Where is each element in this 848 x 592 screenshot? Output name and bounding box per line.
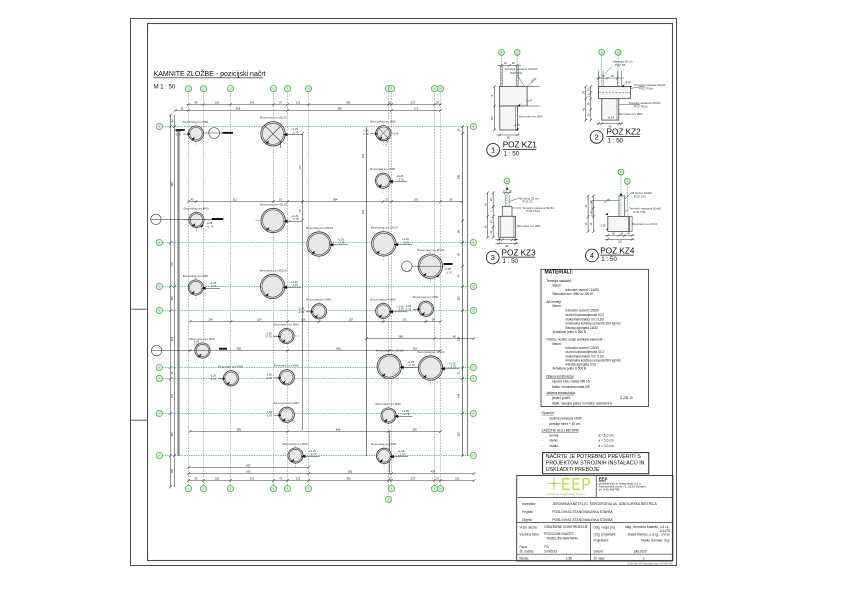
pile circle S13 betonska cev [279,407,294,422]
svg-text:171: 171 [402,317,407,321]
svg-text:POZ TN1b: POZ TN1b [634,104,648,108]
svg-text:Odg. vodja proj.:: Odg. vodja proj.: [594,526,618,530]
short grid segment at pile row S3 [375,180,394,182]
svg-text:trdnostni razred C25/30: trdnostni razred C25/30 [566,309,600,313]
materials list box MATERIALI [541,269,649,406]
pile circle S3 betonska cev [382,169,384,193]
svg-text:192: 192 [414,197,419,201]
svg-text:POZ KZ1: POZ KZ1 [503,141,538,150]
svg-text:POZ KZ4: POZ KZ4 [600,246,635,255]
pile circle S16 betonska cev [383,444,385,468]
svg-text:G: G [472,412,474,416]
grid line hG [163,413,471,415]
svg-text:-1.75: -1.75 [446,271,453,275]
svg-text:V:\S-005-19 Pozicijski nacrt (: V:\S-005-19 Pozicijski nacrt (S-005-19) [628,562,673,566]
pile circle S8 betonska cev [425,297,427,321]
grid line hF [163,378,471,380]
datum mark D3 [402,261,412,271]
logo divider [595,476,597,498]
wall cut bar top-left [176,129,185,131]
svg-text:S-005/19: S-005/19 [544,550,557,554]
svg-text:M 1 : 50: M 1 : 50 [154,85,176,91]
pile circle B4 betonska cev [383,227,385,260]
svg-text:240: 240 [361,209,365,214]
grid line hB [163,242,471,244]
svg-text:Betonska cev Ø80: Betonska cev Ø80 [370,297,396,301]
svg-text:385: 385 [237,427,242,431]
wall left (thick gray) [177,129,179,456]
svg-text:169: 169 [170,432,174,437]
grid line v3 [230,92,232,486]
svg-text:Betonska cev: Ø80 oz. Ø120: Betonska cev: Ø80 oz. Ø120 [553,292,594,296]
svg-text:H: H [472,454,474,458]
svg-text:Jeklena konstrukcija:: Jeklena konstrukcija: [546,391,576,395]
svg-text:D: D [158,309,160,313]
svg-text:-2.76: -2.76 [405,308,412,312]
svg-text:450: 450 [346,100,351,104]
svg-text:-1.75: -1.75 [207,224,214,228]
svg-text:-2.76: -2.76 [298,310,305,314]
svg-text:Betonska cev Ø80: Betonska cev Ø80 [517,224,541,228]
svg-text:dolžine preklopa +50Ø: dolžine preklopa +50Ø [550,417,583,421]
svg-text:-: - [542,417,543,421]
svg-text:- Plošča, nosilci, ostali vert: - Plošča, nosilci, ostali vertikalni ele… [545,338,604,342]
sheet inner border frame [148,24,673,561]
pile circle S9 betonska cev [273,335,299,337]
svg-text:MATERIALI:: MATERIALI: [545,270,574,276]
svg-text:4: 4 [590,251,594,260]
svg-text:-1.75: -1.75 [514,123,520,127]
svg-text:123: 123 [296,100,301,104]
detail POZ KZ4 [584,169,662,263]
datum mark D1 [151,214,161,224]
svg-text:384: 384 [333,197,338,201]
pile circle S5 betonska cev [195,275,197,299]
svg-text:B: B [158,241,160,245]
detail POZ KZ3 [483,178,554,265]
svg-text:-2.76: -2.76 [210,377,217,381]
pile circle S4 betonska cev [196,208,198,232]
svg-text:237: 237 [411,100,416,104]
svg-text:1 : 50: 1 : 50 [608,137,624,144]
svg-text:Betonska cev Ø120: Betonska cev Ø120 [306,226,333,230]
svg-text:630: 630 [246,469,251,473]
svg-text:ostalo:: ostalo: [550,444,560,448]
svg-text:-2.76: -2.76 [362,132,369,136]
internal vertical dimension / wall line [302,134,304,431]
grid line hA [163,126,471,128]
svg-text:-2.76: -2.76 [266,376,273,380]
pile circle B2 betonska cev [256,220,291,222]
svg-text:-: - [542,439,543,443]
title block row line 2 [517,522,673,524]
svg-text:115: 115 [490,115,494,120]
svg-text:169: 169 [456,432,460,437]
pile circle S15 betonska cev [295,443,297,467]
svg-text:Armatura: jeklo S 500 B: Armatura: jeklo S 500 B [553,330,587,334]
svg-text:Betonska cev Ø80: Betonska cev Ø80 [218,365,244,369]
svg-text:Merilo:: Merilo: [520,556,530,560]
svg-text:-2.75: -2.75 [292,130,299,134]
svg-text:B: B [473,241,475,245]
pile circle S11 betonska cev [223,371,238,386]
svg-text:Betonska cev Ø80: Betonska cev Ø80 [370,120,396,124]
svg-text:Betonska cev Ø80: Betonska cev Ø80 [306,298,332,302]
wall segment lower x390 [389,432,391,474]
svg-text:G: G [158,412,160,416]
svg-text:Malta: cementna malta M5: Malta: cementna malta M5 [552,385,590,389]
svg-text:Betonska cev Ø80: Betonska cev Ø80 [274,401,300,405]
svg-text:A: A [158,125,160,129]
svg-text:Faza:: Faza: [520,545,528,549]
svg-text:100: 100 [456,296,460,301]
svg-text:2: 2 [595,133,599,142]
svg-text:-2.75: -2.75 [210,284,217,288]
svg-text:Betonska cev Ø80: Betonska cev Ø80 [183,274,209,278]
svg-text:100: 100 [170,296,174,301]
svg-text:TEMELJNI NASTAVKI: TEMELJNI NASTAVKI [546,537,578,541]
pile circle B6 betonska cev [260,274,284,298]
svg-text:-: - [542,434,543,438]
grid line hC [163,286,471,288]
svg-text:A: A [473,125,475,129]
svg-text:David Vremec, u.d.i.g., u-vi s: David Vremec, u.d.i.g., u-vi sv [628,532,671,536]
datum mark D2 [151,345,161,355]
svg-text:175: 175 [170,262,174,267]
svg-text:Odg. projektant:: Odg. projektant: [594,532,617,536]
svg-text:E: E [473,366,475,370]
grid line v6 [308,92,310,486]
svg-text:-2.75: -2.75 [409,363,416,367]
svg-text:Projektant:: Projektant: [594,538,609,542]
fold mark 2 on left margin [131,419,148,421]
svg-text:150: 150 [215,100,220,104]
svg-text:Betonska cev Ø80: Betonska cev Ø80 [413,295,439,299]
svg-text:+1.14: +1.14 [608,116,615,120]
pile circle B5 betonska cev [429,250,431,283]
svg-text:Betonska cev Ø80: Betonska cev Ø80 [184,206,210,210]
pile circle S7 betonska cev [382,299,384,323]
svg-text:-2.75: -2.75 [399,452,406,456]
svg-text:430: 430 [431,469,436,473]
column divider [589,523,591,555]
svg-text:temelj:: temelj: [550,434,560,438]
svg-text:-1.75: -1.75 [600,224,606,228]
svg-text:1 : 50: 1 : 50 [601,256,617,263]
position mark circle near pile S1 [209,128,220,139]
svg-text:Betonska cev Ø120: Betonska cev Ø120 [260,268,287,272]
svg-text:Betonska cev Ø120: Betonska cev Ø120 [260,116,287,120]
svg-text:ZAŠČITNI SLOJ BETONA:: ZAŠČITNI SLOJ BETONA: [542,428,580,433]
svg-text:C: C [472,285,474,289]
steel bar mark near B5 [444,263,453,265]
detail POZ KZ1 [487,50,543,158]
wall middle-right vertical [366,127,368,456]
svg-text:POZ S12: POZ S12 [634,194,646,198]
svg-text:-2.75: -2.75 [292,283,299,287]
svg-text:Betonska cev Ø120: Betonska cev Ø120 [417,248,444,252]
svg-text:USKLADITI PREBOJE: USKLADITI PREBOJE [546,467,600,473]
svg-text:Opečni blok: marke MB 15: Opečni blok: marke MB 15 [552,380,590,384]
svg-text:KAMNITE ZLOŽBE - pozicijski na: KAMNITE ZLOŽBE - pozicijski načrt [154,69,266,78]
svg-text:POZ S5: POZ S5 [522,200,533,204]
svg-text:Beton:: Beton: [553,342,562,346]
svg-text:a = 3.0 cm: a = 3.0 cm [599,439,614,443]
svg-text:vijaki, navojne palice in mati: vijaki, navojne palice in matice razreda… [552,401,612,405]
svg-text:-2.75: -2.75 [403,240,410,244]
pile circle S1 betonska cev [195,122,197,146]
svg-text:E: E [158,366,160,370]
detail POZ KZ2 [582,49,667,144]
svg-text:a = 3.0 cm: a = 3.0 cm [599,444,614,448]
grid line hE [163,367,471,369]
svg-text:Betonska cev Ø80: Betonska cev Ø80 [370,167,396,171]
svg-text:Št. lista:: Št. lista: [594,555,605,560]
pile circle B3 betonska cev [318,227,320,260]
svg-text:stene:: stene: [550,439,559,443]
svg-text:205: 205 [413,346,418,350]
title block row line 1 [517,496,673,498]
pile circle S10 betonska cev [195,343,210,358]
svg-text:Betonska cev Ø80: Betonska cev Ø80 [519,115,543,119]
svg-text:Beton:: Beton: [553,284,562,288]
svg-text:Vsebina risbe:: Vsebina risbe: [520,532,540,536]
svg-text:298: 298 [398,334,403,338]
svg-text:Betonska cev Ø120: Betonska cev Ø120 [260,202,287,206]
svg-text:+1.47: +1.47 [625,80,632,84]
svg-text:POZ S5: POZ S5 [615,63,626,67]
svg-text:Opombe:: Opombe: [542,411,555,415]
svg-text:Objekt:: Objekt: [522,518,533,522]
svg-text:1: 1 [643,556,645,560]
svg-text:1:50: 1:50 [566,556,572,560]
internal dimension chain H5 [189,467,309,469]
svg-text:468: 468 [170,182,174,187]
svg-text:Datum:: Datum: [594,550,604,554]
svg-text:1: 1 [491,146,495,155]
svg-text:+1.47: +1.47 [526,99,533,103]
bottom dimension chain line 1 [189,473,475,475]
svg-text:- AB temelji:: - AB temelji: [545,300,562,304]
svg-text:jekleni profili:: jekleni profili: [551,396,571,400]
pile circle S6 betonska cev [318,299,320,323]
svg-text:JEROMINA KNETELJC, ŠERCERJEVA: JEROMINA KNETELJC, ŠERCERJEVA 4A, 6250 I… [552,501,657,506]
svg-text:C: C [158,285,160,289]
svg-text:146: 146 [456,393,460,398]
svg-text:-2.08: -2.08 [193,343,200,347]
steel bar mark near S1 [223,132,234,134]
svg-text:164: 164 [208,317,213,321]
svg-text:311: 311 [233,197,238,201]
svg-text:razred izpostavljenosti XC2: razred izpostavljenosti XC2 [566,350,605,354]
svg-text:Investitor:: Investitor: [522,502,537,506]
svg-text:348: 348 [456,174,460,179]
svg-text:241: 241 [250,476,255,480]
svg-text:595: 595 [337,106,342,110]
svg-text:150: 150 [215,476,220,480]
svg-text:a = 5.0 cm: a = 5.0 cm [599,434,614,438]
svg-text:-2.75: -2.75 [398,308,405,312]
svg-text:237: 237 [411,476,416,480]
svg-text:257: 257 [349,317,354,321]
fold mark 1 on left margin [131,308,148,310]
title block frame [517,476,673,562]
grid line v7 [388,92,390,497]
bottom dimension chain line 2 [189,480,475,482]
EEP logo [547,482,561,484]
svg-text:POZ TN6: POZ TN6 [633,210,646,214]
left dimension chain line 2 [174,115,176,487]
svg-text:Zidana konstrukcija:: Zidana konstrukcija: [546,374,574,378]
svg-text:POSLOVNO-STANOVANJSKA STAVBA: POSLOVNO-STANOVANJSKA STAVBA [552,510,613,514]
svg-text:-2.75: -2.75 [292,217,299,221]
svg-text:-2.75: -2.75 [310,452,317,456]
internal dimension chain H2b [367,338,475,340]
svg-text:-: - [542,422,543,426]
svg-text:830: 830 [246,463,251,467]
pile circle S2 betonska cev [382,121,384,145]
grid line v9 [434,92,436,486]
svg-text:450: 450 [346,476,351,480]
svg-text:241: 241 [250,100,255,104]
left dimension chain line 1 [170,115,172,487]
svg-text:-2.75: -2.75 [450,365,457,369]
svg-text:POZICIJSKI NAČRT -: POZICIJSKI NAČRT - [544,531,575,536]
svg-text:preklop mrež + 45 cm: preklop mrež + 45 cm [550,422,581,426]
svg-text:Betonska cev Ø80: Betonska cev Ø80 [619,112,643,116]
svg-text:POZ KZ3: POZ KZ3 [502,248,537,257]
top dimension chain line 1 [187,104,441,106]
svg-text:Betonska cev Ø80: Betonska cev Ø80 [376,402,402,406]
svg-text:tel: 040 446798: tel: 040 446798 [599,488,620,492]
grid line v10 [440,92,442,486]
svg-text:406: 406 [336,427,341,431]
pile circle B1 betonska cev [261,122,285,146]
svg-text:Betonska cev Ø80: Betonska cev Ø80 [371,442,397,446]
svg-text:Marko Sreman, di.g.: Marko Sreman, di.g. [641,538,670,542]
top dimension chain line 2 [175,110,440,112]
svg-text:190: 190 [455,476,460,480]
svg-text:POSLOVNO-STANOVANJSKA STAVBA: POSLOVNO-STANOVANJSKA STAVBA [552,518,613,522]
internal dimension chain H4 [190,431,441,433]
svg-text:505: 505 [348,469,353,473]
svg-text:Betonska cev Ø80: Betonska cev Ø80 [183,120,209,124]
svg-text:Betonska cev Ø80: Betonska cev Ø80 [283,442,309,446]
cross mark in pile S2 [378,128,389,139]
svg-text:+0.44: +0.44 [392,132,399,135]
svg-text:558: 558 [236,106,241,110]
sheet outer border frame [131,19,677,566]
svg-text:-2.75: -2.75 [398,177,405,181]
svg-text:224: 224 [257,317,262,321]
pile circle S14 betonska cev [381,408,396,423]
svg-text:-: - [542,444,543,448]
svg-text:-2.76: -2.76 [266,335,273,339]
svg-text:1 : 50: 1 : 50 [503,258,519,265]
svg-text:H: H [158,454,160,458]
svg-text:POZ KZ2: POZ KZ2 [607,128,642,137]
svg-text:126: 126 [170,469,174,474]
grid line v8 [391,92,393,486]
pile circle S12 betonska cev [279,370,294,385]
svg-text:272: 272 [414,106,419,110]
wall right (double line) [462,127,464,456]
svg-text:Betonska cev Ø80: Betonska cev Ø80 [274,364,300,368]
svg-text:110: 110 [618,241,622,244]
svg-text:D: D [472,309,474,313]
svg-text:Betonska cev Ø120: Betonska cev Ø120 [632,222,658,226]
pile circle B7 betonska cev [377,354,401,378]
grid line hH [163,455,471,457]
svg-text:128: 128 [301,317,306,321]
svg-text:409: 409 [336,346,341,350]
svg-text:POZ TN1a: POZ TN1a [639,87,653,91]
svg-text:147: 147 [170,393,174,398]
svg-text:PROJEKTOM STROJNIH INSTALACIJ: PROJEKTOM STROJNIH INSTALACIJ IN [546,461,645,467]
grid line hD [163,310,471,312]
svg-text:Št. načrta:: Št. načrta: [520,549,535,554]
svg-text:-2.75: -2.75 [403,412,410,416]
grid line v5 [287,92,289,486]
svg-text:208: 208 [412,427,417,431]
svg-text:-2.76: -2.76 [266,414,273,418]
svg-text:270: 270 [298,165,302,170]
right dimension chain [461,125,464,128]
cross mark in pile B1 [264,125,281,142]
svg-text:230: 230 [361,153,365,158]
title block row line 3 [517,553,673,555]
svg-text:Betonska cev Ø80: Betonska cev Ø80 [274,322,300,326]
svg-text:123: 123 [296,476,301,480]
svg-text:1 : 50: 1 : 50 [504,150,520,157]
svg-text:-2.76: -2.76 [175,132,182,136]
svg-text:Betonska cev Ø120: Betonska cev Ø120 [371,226,398,230]
internal dimension chain H1 [189,201,462,203]
svg-text:S 235 J0: S 235 J0 [620,396,633,400]
pile circle B8 betonska cev [430,351,432,384]
grid line v1 [188,92,190,486]
grid line v2 [203,92,205,486]
svg-text:NAČRTE JE POTREBNO PREVERITI S: NAČRTE JE POTREBNO PREVERITI S [546,453,641,460]
svg-text:european engineering project: european engineering project [547,492,585,496]
svg-text:GRADBENE KONSTRUKCIJE: GRADBENE KONSTRUKCIJE [544,525,587,529]
svg-text:POZ TN12: POZ TN12 [526,209,540,213]
svg-text:PZI: PZI [544,545,549,549]
warning note box [543,453,649,474]
internal dimension chain H3 [190,350,441,352]
svg-text:julij 2020: julij 2020 [633,550,647,554]
svg-text:3: 3 [491,253,495,262]
svg-text:-2.75: -2.75 [338,241,345,245]
grid line v4 [273,92,275,486]
svg-text:Projekt:: Projekt: [522,510,534,514]
internal dimension chain H2 [190,321,441,323]
svg-text:Beton:: Beton: [553,304,562,308]
svg-text:Vrsta načrta:: Vrsta načrta: [520,526,538,530]
svg-text:338: 338 [237,346,242,350]
svg-text:225: 225 [170,336,174,341]
svg-text:Armatura: jeklo S 500 B: Armatura: jeklo S 500 B [553,367,587,371]
